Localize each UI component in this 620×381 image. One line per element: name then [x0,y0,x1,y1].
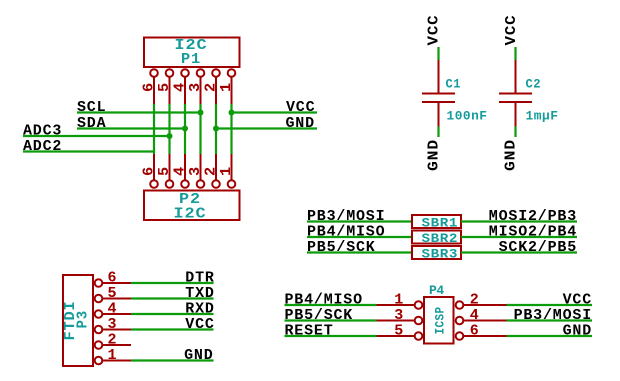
solder bridge SBR2 box [412,231,461,244]
svg-text:2: 2 [203,166,220,176]
svg-text:3: 3 [187,166,204,176]
wire SBR2 to MISO2/PB4 [461,236,577,238]
wire PB3/MOSI from P4 [507,319,593,321]
P3 pin 3 lead [103,329,132,331]
junction SDA pin4 [182,126,188,132]
solder bridge SBR3 box [412,246,461,259]
svg-text:MOSI2/PB3: MOSI2/PB3 [489,208,577,225]
capacitor C2 bottom lead [515,102,517,127]
svg-text:GND: GND [184,347,213,364]
wire TXD [131,297,214,299]
wire C1 to GND [437,127,439,138]
wire net pin4 vertical [184,104,186,154]
svg-text:SBR2: SBR2 [422,231,459,246]
wire net pin2 vertical [215,104,217,154]
svg-text:6: 6 [470,323,480,340]
wire net pin3 vertical [199,104,201,154]
P1 pin circle 6 [150,69,158,77]
P4 pin circle 6 [456,332,464,340]
svg-text:1: 1 [394,292,404,309]
P1 pin 4 lead [184,77,186,104]
capacitor C1 top plate [422,93,455,95]
solder bridge SBR1 box [412,215,461,228]
P2 pin 3 lead [200,154,202,180]
svg-text:P1: P1 [181,51,201,68]
connector P1 box [144,38,240,68]
svg-text:PB4/MISO: PB4/MISO [285,292,363,309]
P2 pin 5 lead [169,154,171,180]
P1 pin 5 lead [169,77,171,104]
svg-text:5: 5 [156,166,173,176]
P3 pin 1 lead [103,360,132,362]
svg-text:6: 6 [108,270,118,287]
svg-text:I2C: I2C [174,206,207,223]
P4 pin 4 lead [464,320,507,322]
P2 pin circle 1 [228,180,236,188]
P2 pin circle 4 [181,180,189,188]
P2 pin 6 lead [153,154,155,180]
svg-text:GND: GND [503,139,520,171]
svg-text:GND: GND [426,139,443,171]
junction GND pin2 [213,126,219,132]
svg-text:SCK2/PB5: SCK2/PB5 [499,239,577,256]
connector P4 box [424,297,454,344]
P4 pin 2 lead [464,304,507,306]
P1 pin 6 lead [153,77,155,104]
P1 pin circle 2 [212,69,220,77]
P4 pin circle 3 [415,317,423,325]
wire SCL [77,111,201,113]
P3 pin circle 2 [95,341,103,349]
P1 pin circle 5 [166,69,174,77]
svg-text:1: 1 [218,166,235,176]
junction ADC3 pin5 [167,133,173,139]
wire GND from P4 [507,335,593,337]
P2 pin 2 lead [215,154,217,180]
P4 pin 6 lead [464,335,507,337]
wire PB4/MISO to P4 [285,304,377,306]
svg-text:C1: C1 [446,77,462,92]
wire GND from pin2 [216,127,317,129]
wire PB3/MOSI to SBR1 [307,220,412,222]
wire VCC from P4 [507,304,593,306]
wire SBR1 to MOSI2/PB3 [461,220,577,222]
svg-text:SBR1: SBR1 [422,216,459,231]
svg-text:4: 4 [172,166,189,176]
P3 pin 5 lead [103,298,132,300]
P4 pin circle 5 [415,332,423,340]
P1 pin circle 4 [181,69,189,77]
wire ADC3 [23,135,170,137]
svg-text:2: 2 [470,292,480,309]
svg-text:TXD: TXD [185,285,214,302]
svg-text:3: 3 [394,307,404,324]
connector P3 box [63,275,93,366]
svg-text:6: 6 [141,166,158,176]
P3 pin circle 3 [95,326,103,334]
svg-text:RXD: RXD [185,301,214,318]
wire RESET to P4 [285,335,377,337]
P2 pin circle 2 [212,180,220,188]
svg-text:VCC: VCC [563,292,592,309]
connector P2 box [144,191,240,221]
svg-text:C2: C2 [526,77,542,92]
P2 pin circle 6 [150,180,158,188]
wire net pin5 vertical [168,104,170,154]
svg-text:2: 2 [108,332,118,349]
P1 pin circle 3 [197,69,205,77]
P4 pin circle 1 [415,301,423,309]
wire VCC to C2 [514,47,516,60]
wire GND to P3 [131,359,214,361]
svg-text:5: 5 [394,323,404,340]
svg-text:5: 5 [108,285,118,302]
svg-text:VCC: VCC [426,15,443,46]
wire net pin6 vertical [153,104,155,154]
svg-text:PB5/SCK: PB5/SCK [285,307,354,324]
wire net pin1 vertical [230,104,232,154]
svg-text:ICSP: ICSP [433,307,448,335]
P4 pin 3 lead [377,320,415,322]
P3 pin circle 1 [95,357,103,365]
svg-text:VCC: VCC [503,15,520,46]
svg-text:PB3/MOSI: PB3/MOSI [514,307,592,324]
P1 pin 1 lead [231,77,233,104]
svg-text:4: 4 [108,301,118,318]
junction SCL pin3 [198,110,204,116]
svg-text:3: 3 [108,316,118,333]
svg-text:DTR: DTR [185,270,214,287]
P2 pin circle 3 [197,180,205,188]
svg-text:GND: GND [563,323,592,340]
P2 pin circle 5 [166,180,174,188]
P3 pin circle 5 [95,295,103,303]
junction VCC pin1 [229,110,235,116]
svg-text:1mµF: 1mµF [526,109,559,124]
svg-text:VCC: VCC [185,316,214,333]
capacitor C1 bottom lead [438,102,440,127]
capacitor C2 bottom plate [499,101,532,103]
svg-text:SBR3: SBR3 [422,247,459,262]
wire SBR3 to SCK2/PB5 [461,251,577,253]
P3 pin 6 lead [103,282,132,284]
P4 pin circle 2 [456,301,464,309]
P3 pin 4 lead [103,313,132,315]
wire PB4/MISO to SBR2 [307,236,412,238]
wire VCC to P3 [131,328,214,330]
wire VCC from pin1 [232,111,318,113]
P3 pin 2 lead [103,344,132,346]
capacitor C2 top plate [499,93,532,95]
wire PB5/SCK to P4 [285,319,377,321]
wire VCC to C1 [437,47,439,60]
svg-text:P3: P3 [75,310,92,329]
wire SDA [77,127,185,129]
P2 pin 1 lead [231,154,233,180]
svg-text:1: 1 [108,347,118,364]
svg-text:RESET: RESET [285,323,334,340]
P1 pin 2 lead [215,77,217,104]
wire C2 to GND [514,127,516,138]
svg-text:MISO2/PB4: MISO2/PB4 [489,224,577,241]
P1 pin circle 1 [228,69,236,77]
wire ADC2 [23,150,154,152]
P4 pin circle 4 [456,317,464,325]
capacitor C1 bottom plate [422,101,455,103]
svg-text:100nF: 100nF [447,109,488,124]
svg-text:4: 4 [470,307,480,324]
P3 pin circle 4 [95,310,103,318]
wire PB5/SCK to SBR3 [307,251,412,253]
P4 pin 5 lead [377,335,415,337]
capacitor C2 top lead [515,60,517,94]
wire DTR [131,282,214,284]
capacitor C1 top lead [438,60,440,94]
svg-text:P4: P4 [429,283,445,298]
P3 pin circle 6 [95,279,103,287]
wire RXD [131,313,214,315]
P2 pin 4 lead [184,154,186,180]
P4 pin 1 lead [377,304,415,306]
P1 pin 3 lead [200,77,202,104]
